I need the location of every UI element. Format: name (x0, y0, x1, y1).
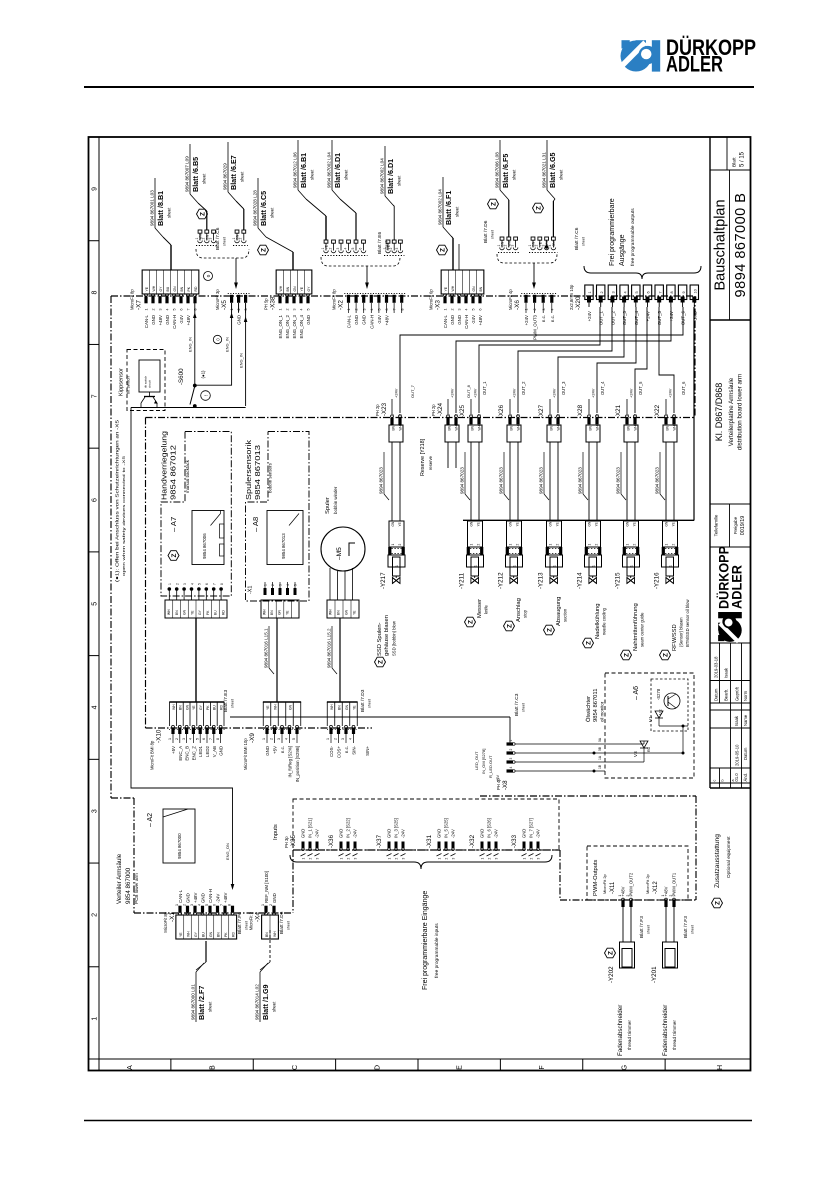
svg-text:V3: V3 (633, 751, 638, 757)
svg-text:IN_2 [S22]: IN_2 [S22] (346, 818, 351, 838)
svg-text:BN: BN (392, 425, 396, 430)
svg-text:Blatt /6.B5: Blatt /6.B5 (191, 157, 200, 192)
svg-text:free programmable outputs: free programmable outputs (630, 208, 636, 266)
svg-text:WH: WH (634, 424, 638, 430)
svg-text:1: 1 (523, 858, 527, 860)
svg-text:-X5: -X5 (221, 300, 228, 310)
svg-text:2: 2 (175, 738, 179, 740)
svg-text:9894 867001 L03: 9894 867001 L03 (150, 190, 155, 226)
svg-text:Blatt /6.G5: Blatt /6.G5 (548, 152, 557, 188)
svg-text:YE: YE (595, 522, 599, 526)
svg-text:2: 2 (183, 904, 187, 906)
svg-text:WH: WH (330, 704, 334, 710)
svg-text:PH 2p: PH 2p (375, 404, 380, 416)
svg-text:GND: GND (306, 315, 311, 325)
svg-text:OUT_5: OUT_5 (638, 381, 643, 395)
svg-text:4: 4 (509, 767, 513, 769)
svg-text:2: 2 (478, 414, 482, 416)
svg-text:GY: GY (159, 286, 163, 292)
svg-text:COS+: COS+ (337, 746, 342, 759)
svg-text:-Y202: -Y202 (608, 966, 615, 983)
svg-text:Geprüft: Geprüft (735, 686, 740, 701)
svg-text:IN_1 [S21]: IN_1 [S21] (308, 818, 313, 838)
svg-text:Blatt /8.B1: Blatt /8.B1 (156, 191, 165, 226)
svg-text:WH: WH (673, 424, 677, 430)
svg-text:PWM-Outputs: PWM-Outputs (593, 860, 599, 896)
svg-text:5: 5 (205, 904, 209, 906)
svg-text:thread trimmer: thread trimmer (672, 1020, 677, 1050)
svg-text:PH 2p: PH 2p (431, 404, 436, 416)
svg-text:1: 1 (481, 858, 485, 860)
svg-text:OUT_2: OUT_2 (610, 310, 615, 325)
svg-text:knife: knife (484, 604, 489, 614)
svg-text:-X7: -X7 (136, 300, 143, 310)
svg-text:F: F (539, 1065, 546, 1069)
svg-text:4: 4 (92, 705, 99, 709)
svg-text:1: 1 (588, 291, 592, 293)
svg-text:GN: GN (470, 521, 474, 526)
svg-text:7: 7 (213, 583, 217, 585)
svg-text:GN: GN (293, 286, 297, 292)
svg-text:reserve: reserve (428, 455, 433, 470)
svg-text:Blatt /6.F5: Blatt /6.F5 (501, 154, 510, 188)
svg-text:1: 1 (509, 740, 513, 742)
svg-text:-Y212: -Y212 (498, 572, 505, 589)
svg-text:8: 8 (400, 309, 404, 311)
svg-text:3: 3 (183, 583, 187, 585)
svg-text:Spuler: Spuler (325, 497, 331, 514)
svg-text:IN_OM [S278]: IN_OM [S278] (481, 749, 486, 774)
svg-text:-X9: -X9 (249, 733, 256, 743)
svg-text:+24V: +24V (552, 388, 557, 398)
svg-text:WH: WH (167, 609, 171, 615)
svg-text:PK: PK (224, 932, 228, 937)
svg-text:PK: PK (187, 286, 191, 291)
svg-text:-X35: -X35 (290, 834, 297, 848)
svg-text:ENG_ON_4: ENG_ON_4 (299, 314, 304, 338)
svg-text:GND: GND (450, 315, 455, 325)
svg-text:+48V: +48V (186, 315, 191, 325)
svg-text:– A8: – A8 (251, 517, 260, 532)
svg-text:GN: GN (345, 609, 349, 615)
svg-text:+24V: +24V (473, 388, 478, 398)
svg-text:3: 3 (208, 238, 212, 240)
svg-text:distribution board lower arm: distribution board lower arm (737, 374, 744, 450)
svg-text:sheet: sheet (245, 921, 249, 930)
svg-text:GN: GN (173, 286, 177, 292)
svg-text:GN: GN (549, 521, 553, 526)
svg-text:2: 2 (355, 309, 359, 311)
svg-text:Kippsensor: Kippsensor (119, 368, 125, 396)
svg-text:YE: YE (179, 932, 183, 937)
svg-text:+48V: +48V (385, 315, 390, 325)
svg-text:GND: GND (201, 893, 206, 903)
svg-text:GND: GND (354, 315, 359, 325)
svg-text:WH: WH (399, 424, 403, 430)
svg-text:6: 6 (180, 309, 184, 311)
svg-text:-X3: -X3 (435, 300, 442, 310)
svg-text:ENG_ON_3: ENG_ON_3 (292, 314, 297, 338)
svg-text:9854 867000: 9854 867000 (125, 867, 132, 904)
svg-text:BN: BN (589, 425, 593, 430)
svg-text:GND: GND (362, 315, 367, 325)
svg-text:2: 2 (633, 544, 637, 546)
svg-text:COS-: COS- (329, 745, 334, 757)
svg-text:–M5: –M5 (336, 547, 343, 560)
svg-text:WH: WH (186, 931, 190, 937)
svg-text:5: 5 (173, 309, 177, 311)
svg-text:(●1): Offen bei Anschluss von: (●1): Offen bei Anschluss von Schutzeinr… (115, 419, 120, 582)
svg-text:5: 5 (195, 738, 199, 740)
svg-text:2019-03-18: 2019-03-18 (714, 656, 719, 678)
svg-text:manual backtack: manual backtack (185, 459, 190, 493)
svg-text:GND: GND (480, 829, 485, 838)
svg-text:4: 4 (198, 904, 202, 906)
svg-text:5: 5 (351, 248, 355, 250)
svg-text:3: 3 (159, 309, 163, 311)
svg-text:GN: GN (472, 286, 476, 292)
svg-text:sheet: sheet (455, 206, 460, 217)
svg-text:suction: suction (563, 608, 568, 622)
svg-text:1: 1 (447, 414, 451, 416)
svg-text:IN_3 [S25]: IN_3 [S25] (394, 818, 399, 838)
svg-text:2: 2 (509, 749, 513, 751)
svg-text:9894 867023: 9894 867023 (539, 467, 544, 494)
svg-text:2019-05-10: 2019-05-10 (735, 744, 740, 766)
svg-text:ADLER: ADLER (730, 565, 745, 609)
svg-text:1: 1 (302, 858, 306, 860)
svg-text:2: 2 (673, 414, 677, 416)
svg-text:0019/19: 0019/19 (740, 516, 746, 536)
svg-text:-24V: -24V (377, 315, 382, 324)
svg-text:2x2,8mm 10p: 2x2,8mm 10p (569, 284, 574, 310)
svg-text:BTM/SSD sensor oil blow: BTM/SSD sensor oil blow (685, 599, 690, 647)
svg-text:Blatt /6.D1: Blatt /6.D1 (333, 153, 342, 188)
svg-text:1: 1 (168, 583, 172, 585)
svg-text:1: 1 (264, 584, 268, 586)
svg-text:GY: GY (198, 609, 202, 615)
svg-text:Blatt /6.C5: Blatt /6.C5 (259, 191, 268, 226)
svg-text:-X4: -X4 (255, 912, 262, 922)
svg-text:!: ! (204, 395, 209, 396)
svg-text:+24V: +24V (591, 388, 596, 398)
svg-text:BN: BN (666, 425, 670, 430)
svg-text:9894 867002 L04: 9894 867002 L04 (327, 152, 332, 188)
svg-text:– A7: – A7 (169, 517, 178, 532)
svg-text:Z: Z (608, 951, 615, 955)
svg-text:ENG_ON: ENG_ON (225, 843, 230, 860)
svg-text:-Y217: -Y217 (380, 572, 387, 589)
svg-text:1: 1 (509, 414, 513, 416)
svg-text:RD: RD (231, 932, 235, 937)
svg-text:9854 867011: 9854 867011 (593, 689, 599, 722)
svg-text:-X6: -X6 (514, 300, 521, 310)
svg-text:BN: BN (337, 610, 341, 615)
svg-text:REF_NM [S100]: REF_NM [S100] (264, 871, 269, 903)
svg-text:-X33: -X33 (511, 834, 518, 848)
svg-text:9: 9 (682, 291, 686, 293)
svg-text:8: 8 (670, 291, 674, 293)
svg-text:H: H (717, 1065, 724, 1070)
svg-text:7: 7 (220, 904, 224, 906)
svg-text:GN: GN (626, 521, 630, 526)
svg-text:9854 867013: 9854 867013 (253, 445, 262, 500)
svg-text:4: 4 (300, 309, 304, 311)
svg-text:sheet: sheet (522, 703, 526, 712)
svg-text:10: 10 (694, 289, 698, 293)
svg-text:-Y216: -Y216 (654, 572, 661, 589)
svg-text:2: 2 (455, 414, 459, 416)
svg-text:9894 867023: 9894 867023 (499, 467, 504, 494)
svg-text:6: 6 (647, 291, 651, 293)
svg-text:Isaak: Isaak (724, 667, 729, 678)
svg-text:WH: WH (263, 609, 267, 615)
svg-text:+24V: +24V (587, 311, 592, 321)
svg-text:2: 2 (347, 858, 351, 860)
svg-text:-24V: -24V (536, 829, 541, 838)
svg-text:2: 2 (152, 309, 156, 311)
svg-text:(●1): (●1) (201, 370, 206, 379)
svg-text:1: 1 (665, 414, 669, 416)
svg-text:BN: BN (270, 610, 274, 615)
svg-text:1: 1 (92, 1017, 99, 1021)
svg-text:MicroFit 4p: MicroFit 4p (508, 289, 513, 310)
svg-text:GY: GY (199, 704, 203, 710)
svg-text:Z: Z (536, 206, 543, 210)
svg-text:CAN-L: CAN-L (443, 314, 448, 328)
svg-text:+24V: +24V (668, 388, 673, 398)
svg-text:-X2: -X2 (337, 300, 344, 310)
svg-text:6: 6 (92, 498, 99, 502)
svg-text:3: 3 (395, 248, 399, 250)
svg-text:-X26: -X26 (498, 404, 505, 418)
svg-text:OUT_3: OUT_3 (622, 310, 627, 325)
svg-text:+24V: +24V (524, 315, 529, 325)
svg-text:9894 867023: 9894 867023 (655, 467, 660, 494)
svg-text:1: 1 (340, 858, 344, 860)
svg-text:Z: Z (547, 628, 554, 632)
svg-text:YE: YE (633, 522, 637, 526)
svg-text:BN: BN (448, 425, 452, 430)
svg-text:OUT_3: OUT_3 (561, 381, 566, 395)
svg-text:+24V: +24V (629, 388, 634, 398)
svg-text:MicroFit BMI 8p: MicroFit BMI 8p (150, 740, 155, 770)
svg-text:SIN-: SIN- (352, 745, 357, 754)
svg-text:GY: GY (307, 286, 311, 292)
svg-text:GND: GND (437, 829, 442, 838)
svg-text:1: 1 (661, 895, 665, 897)
svg-text:2: 2 (626, 895, 630, 897)
svg-text:OUT_8: OUT_8 (466, 384, 471, 398)
svg-text:7: 7 (658, 291, 662, 293)
svg-text:Blatt /7.D6: Blatt /7.D6 (483, 220, 489, 243)
svg-text:9854 867013: 9854 867013 (281, 533, 286, 559)
svg-text:1: 1 (391, 544, 395, 546)
svg-text:2: 2 (488, 858, 492, 860)
svg-text:1: 1 (261, 904, 265, 906)
svg-text:MicroFit BMI 10p: MicroFit BMI 10p (243, 738, 248, 770)
svg-text:8: 8 (220, 583, 224, 585)
svg-text:-X1: -X1 (248, 586, 254, 594)
svg-text:IN_5 [S25]: IN_5 [S25] (444, 818, 449, 838)
svg-text:ENG_ON_1: ENG_ON_1 (278, 314, 283, 338)
svg-text:ENC_A: ENC_A (178, 746, 183, 761)
svg-text:2: 2 (328, 248, 332, 250)
svg-text:sheet: sheet (691, 925, 695, 934)
svg-text:WH: WH (478, 424, 482, 430)
svg-text:sheet: sheet (223, 237, 227, 246)
svg-text:Z: Z (715, 901, 722, 905)
svg-text:6: 6 (205, 583, 209, 585)
svg-text:9894 867007 L09: 9894 867007 L09 (185, 156, 190, 192)
svg-text:2: 2 (530, 858, 534, 860)
svg-text:WH: WH (279, 285, 283, 291)
svg-text:Z: Z (507, 624, 514, 628)
svg-text:Z: Z (491, 202, 498, 206)
svg-text:2: 2 (600, 291, 604, 293)
svg-text:Nadelkühlung: Nadelkühlung (595, 604, 601, 639)
svg-text:OUT_4: OUT_4 (600, 381, 605, 395)
svg-text:1: 1 (195, 238, 199, 240)
svg-text:2: 2 (334, 738, 338, 740)
svg-text:bobbin winder: bobbin winder (333, 486, 338, 514)
svg-text:R_LED.OUT: R_LED.OUT (488, 755, 493, 778)
svg-text:BN: BN (286, 286, 290, 291)
svg-text:Bauschaltplan: Bauschaltplan (713, 199, 729, 290)
svg-text:B: B (210, 1065, 217, 1070)
svg-text:ENG_IN: ENG_IN (188, 337, 193, 352)
svg-text:-X25: -X25 (459, 404, 466, 418)
svg-text:-X10: -X10 (156, 729, 163, 743)
svg-text:5: 5 (92, 602, 99, 606)
svg-text:+24V: +24V (512, 388, 517, 398)
svg-text:Blatt /7.C3: Blatt /7.C3 (514, 693, 520, 716)
svg-text:9894 867002 L04: 9894 867002 L04 (438, 189, 443, 225)
svg-text:Blatt /7.F3: Blatt /7.F3 (639, 916, 645, 938)
svg-text:GN: GN (185, 704, 189, 710)
svg-text:Blatt /6.B1: Blatt /6.B1 (299, 153, 308, 188)
svg-text:-Y214: -Y214 (577, 572, 584, 589)
svg-text:MicroFit 2p: MicroFit 2p (645, 873, 650, 894)
svg-text:Fadenabschneider: Fadenabschneider (662, 1005, 669, 1056)
svg-text:sheet: sheet (647, 925, 651, 934)
svg-text:+5V: +5V (273, 746, 278, 754)
svg-text:9894 867023: 9894 867023 (616, 467, 621, 494)
svg-text:2: 2 (445, 858, 449, 860)
svg-text:1: 1 (588, 544, 592, 546)
svg-text:Z: Z (663, 653, 670, 657)
svg-text:PWM_OUT3: PWM_OUT3 (533, 314, 538, 339)
svg-text:2: 2 (634, 414, 638, 416)
svg-text:WH: WH (455, 424, 459, 430)
svg-text:(Sensor) blasen: (Sensor) blasen (679, 617, 684, 647)
svg-text:CAN-H: CAN-H (369, 315, 374, 329)
svg-text:Blatt /7.F6: Blatt /7.F6 (237, 912, 243, 934)
svg-text:-X1: -X1 (169, 912, 176, 922)
svg-text:9894 867023: 9894 867023 (460, 467, 465, 494)
svg-text:c: c (713, 780, 717, 782)
svg-text:OUT_1: OUT_1 (482, 381, 487, 395)
svg-text:BN: BN (179, 705, 183, 710)
svg-text:1: 1 (626, 414, 630, 416)
svg-text:9894 867029: 9894 867029 (223, 163, 228, 190)
svg-text:3: 3 (316, 858, 320, 860)
svg-text:YE: YE (398, 522, 402, 526)
svg-text:BU: BU (201, 932, 205, 937)
svg-text:GN: GN (183, 609, 187, 615)
svg-text:5: 5 (635, 291, 639, 293)
svg-text:3: 3 (279, 584, 283, 586)
svg-text:9894 867006 L08: 9894 867006 L08 (495, 152, 500, 188)
svg-text:MicroFit 8p: MicroFit 8p (163, 911, 168, 932)
svg-text:PCB lower arm: PCB lower arm (134, 873, 139, 904)
svg-text:1: 1 (326, 738, 330, 740)
svg-text:1: 1 (383, 248, 387, 250)
svg-text:Blatt /7.C6: Blatt /7.C6 (574, 227, 580, 250)
svg-text:-X31: -X31 (426, 834, 433, 848)
svg-text:PWM_OUT2: PWM_OUT2 (629, 872, 634, 896)
svg-text:2: 2 (535, 245, 539, 247)
svg-text:2: 2 (398, 544, 402, 546)
svg-text:4: 4 (349, 738, 353, 740)
svg-text:2: 2 (517, 414, 521, 416)
svg-text:4: 4 (166, 309, 170, 311)
svg-text:8: 8 (194, 309, 198, 311)
svg-text:BN: BN (471, 425, 475, 430)
svg-text:MicroFit 2: MicroFit 2 (249, 911, 254, 930)
svg-text:1: 1 (279, 309, 283, 311)
svg-text:-24V: -24V (494, 829, 499, 838)
svg-text:Blatt /7.E3: Blatt /7.E3 (223, 690, 229, 712)
svg-text:+48V: +48V (478, 315, 483, 325)
svg-text:9894 867016 L15.1: 9894 867016 L15.1 (264, 628, 269, 668)
svg-text:Kl. D867/D868: Kl. D867/D868 (714, 383, 724, 442)
svg-text:IN_6 [S26]: IN_6 [S26] (487, 818, 492, 838)
svg-text:Frei programmierbare: Frei programmierbare (609, 198, 616, 266)
svg-text:9894 867002 L04: 9894 867002 L04 (380, 158, 385, 194)
svg-text:n.c.: n.c. (344, 746, 349, 753)
svg-text:9854 867012: 9854 867012 (169, 445, 178, 500)
svg-text:CAN-L: CAN-L (144, 314, 149, 328)
svg-text:Name: Name (743, 714, 748, 726)
svg-text:-X23: -X23 (381, 402, 388, 416)
svg-text:Fadenabschneider: Fadenabschneider (617, 1005, 624, 1056)
svg-text:sheet: sheet (287, 921, 291, 930)
svg-text:5: 5 (198, 583, 202, 585)
svg-text:4: 4 (370, 309, 374, 311)
svg-text:2: 2 (516, 544, 520, 546)
svg-text:1: 1 (230, 309, 234, 311)
svg-text:GN: GN (391, 521, 395, 526)
svg-text:-Y201: -Y201 (651, 966, 658, 983)
svg-text:sheet: sheet (270, 207, 275, 218)
svg-text:+48V: +48V (158, 315, 163, 325)
svg-text:3: 3 (336, 248, 340, 250)
svg-text:1: 1 (388, 858, 392, 860)
svg-text:9854 867006: 9854 867006 (202, 533, 207, 559)
svg-text:n.c.: n.c. (541, 315, 546, 322)
svg-text:-X28: -X28 (577, 404, 584, 418)
svg-text:-24V: -24V (451, 829, 456, 838)
svg-text:OUT_1: OUT_1 (599, 310, 604, 325)
svg-text:GN: GN (345, 704, 349, 710)
svg-text:4: 4 (550, 309, 554, 311)
svg-text:Blatt /6.D1: Blatt /6.D1 (386, 159, 395, 194)
svg-text:BN: BN (550, 425, 554, 430)
svg-text:GN: GN (278, 609, 282, 615)
svg-text:9894 867021 L31: 9894 867021 L31 (542, 152, 547, 188)
svg-text:Spulersensorik: Spulersensorik (244, 440, 253, 500)
